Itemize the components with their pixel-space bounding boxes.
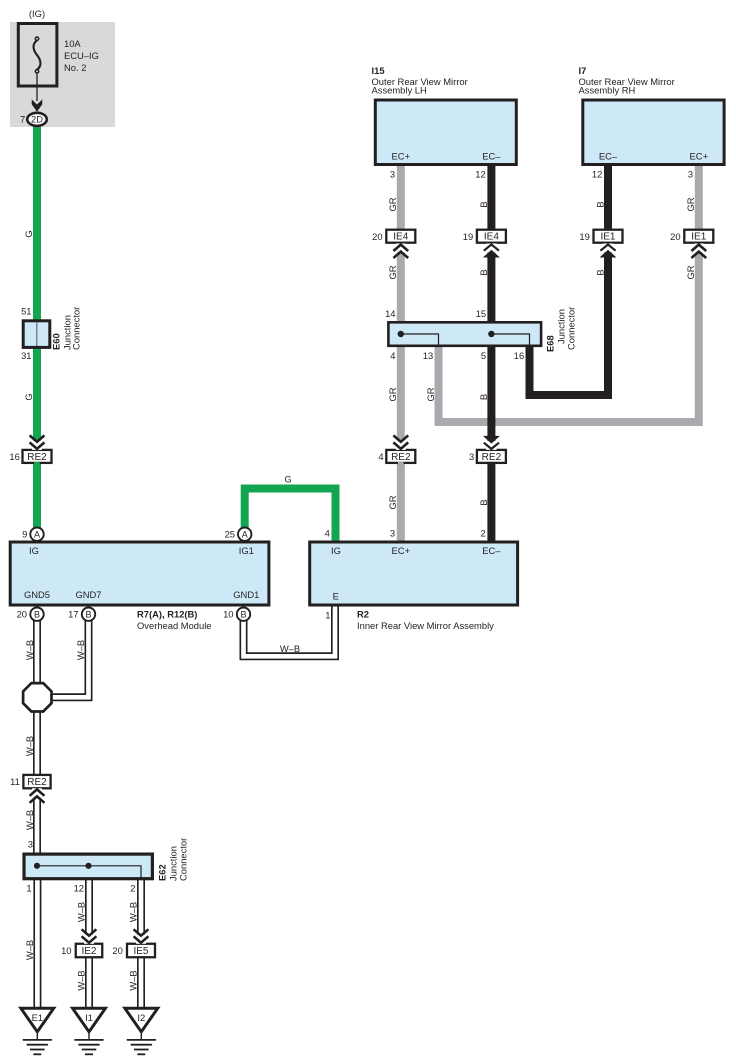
svg-text:10: 10 [61,945,71,956]
svg-text:G: G [284,474,291,485]
svg-text:E1: E1 [32,1012,43,1023]
svg-text:1: 1 [325,610,330,621]
svg-text:Assembly LH: Assembly LH [372,85,427,96]
svg-text:B: B [478,499,489,505]
svg-text:W–B: W–B [280,643,300,654]
svg-text:IG1: IG1 [239,545,254,556]
svg-text:W–B: W–B [128,902,139,922]
svg-text:3: 3 [390,528,395,539]
svg-text:10: 10 [223,609,233,620]
svg-text:16: 16 [9,451,19,462]
svg-text:G: G [23,393,34,400]
svg-text:IG: IG [331,545,341,556]
svg-text:Connector: Connector [71,307,82,350]
svg-text:4: 4 [378,451,383,462]
svg-text:IG: IG [29,545,39,556]
svg-text:W–B: W–B [128,970,139,990]
svg-text:G: G [23,230,34,237]
svg-text:B: B [478,394,489,400]
svg-text:EC+: EC+ [392,151,411,162]
svg-text:16: 16 [514,350,524,361]
svg-text:B: B [240,610,246,620]
svg-text:E60: E60 [51,333,62,350]
svg-text:25: 25 [225,529,235,540]
svg-text:W–B: W–B [76,970,87,990]
svg-text:2: 2 [480,528,485,539]
svg-text:IE2: IE2 [81,946,96,957]
svg-text:EC–: EC– [599,151,618,162]
svg-text:GR: GR [685,197,696,211]
svg-text:(IG): (IG) [29,8,45,19]
svg-text:EC–: EC– [482,151,501,162]
svg-text:B: B [594,201,605,207]
svg-text:E: E [333,591,339,602]
svg-text:A: A [34,530,40,540]
svg-text:B: B [594,269,605,275]
svg-text:R2: R2 [357,608,369,619]
svg-text:No. 2: No. 2 [64,62,86,73]
svg-text:GR: GR [685,265,696,279]
svg-text:13: 13 [423,350,433,361]
svg-text:W–B: W–B [24,810,35,830]
svg-text:B: B [85,610,91,620]
svg-text:5: 5 [481,350,486,361]
svg-text:19: 19 [463,231,473,242]
svg-text:IE1: IE1 [691,232,706,243]
svg-text:3: 3 [28,839,33,850]
svg-text:E68: E68 [545,335,556,352]
svg-text:7: 7 [20,114,25,125]
svg-text:Inner Rear View Mirror Assembl: Inner Rear View Mirror Assembly [357,620,494,631]
svg-text:31: 31 [21,350,31,361]
svg-text:I15: I15 [372,65,385,76]
svg-text:3: 3 [390,169,395,180]
svg-text:GR: GR [425,387,436,401]
svg-text:B: B [478,201,489,207]
svg-text:3: 3 [469,451,474,462]
svg-text:EC+: EC+ [392,545,411,556]
svg-text:51: 51 [21,306,31,317]
svg-text:20: 20 [112,945,122,956]
svg-text:RE2: RE2 [27,452,47,463]
svg-text:GND7: GND7 [75,589,101,600]
svg-text:B: B [478,269,489,275]
svg-text:W–B: W–B [75,640,86,660]
svg-text:Assembly RH: Assembly RH [579,85,636,96]
svg-text:I2: I2 [137,1012,145,1023]
svg-text:3: 3 [688,169,693,180]
svg-text:20: 20 [670,231,680,242]
svg-text:IE4: IE4 [393,232,408,243]
svg-text:19: 19 [579,231,589,242]
svg-text:R7(A), R12(B): R7(A), R12(B) [137,608,197,619]
svg-text:Connector: Connector [178,838,189,881]
svg-text:9: 9 [22,529,27,540]
svg-text:GND5: GND5 [24,589,50,600]
svg-text:I7: I7 [579,65,587,76]
svg-text:Connector: Connector [566,307,577,350]
svg-text:14: 14 [385,308,395,319]
svg-text:A: A [242,530,248,540]
svg-text:E62: E62 [157,864,168,881]
svg-text:IE5: IE5 [133,946,148,957]
svg-text:ECU–IG: ECU–IG [64,50,99,61]
svg-text:1: 1 [26,883,31,894]
svg-text:IE1: IE1 [600,232,615,243]
svg-text:12: 12 [592,169,602,180]
svg-text:W–B: W–B [24,640,35,660]
svg-text:RE2: RE2 [27,777,47,788]
svg-text:W–B: W–B [24,940,35,960]
svg-text:17: 17 [68,609,78,620]
svg-text:20: 20 [372,231,382,242]
svg-text:EC+: EC+ [690,151,709,162]
svg-text:2: 2 [130,883,135,894]
svg-text:GR: GR [387,387,398,401]
svg-text:2D: 2D [31,115,43,125]
svg-text:GND1: GND1 [233,589,259,600]
svg-text:I1: I1 [85,1012,93,1023]
svg-text:W–B: W–B [76,902,87,922]
svg-text:12: 12 [74,883,84,894]
svg-text:IE4: IE4 [484,232,499,243]
svg-text:Overhead Module: Overhead Module [137,620,212,631]
svg-text:4: 4 [390,350,395,361]
svg-text:GR: GR [387,265,398,279]
svg-text:EC–: EC– [482,545,501,556]
svg-text:12: 12 [475,169,485,180]
svg-text:20: 20 [17,609,27,620]
svg-text:10A: 10A [64,38,81,49]
svg-text:11: 11 [10,776,20,787]
svg-text:RE2: RE2 [482,452,502,463]
svg-text:GR: GR [387,197,398,211]
svg-text:RE2: RE2 [391,452,411,463]
svg-text:W–B: W–B [24,736,35,756]
svg-text:4: 4 [325,528,330,539]
svg-text:GR: GR [387,495,398,509]
svg-text:15: 15 [476,308,486,319]
svg-text:B: B [34,610,40,620]
